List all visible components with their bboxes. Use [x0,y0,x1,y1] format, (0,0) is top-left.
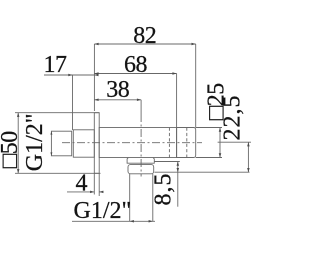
svg-text:38: 38 [106,77,130,103]
flange plate [94,113,99,174]
dim 82 left extension [93,44,95,111]
dim 4 right extension [98,173,100,196]
arrow dim82 right [192,43,196,46]
svg-text:17: 17 [44,52,68,78]
centerline extension right (22,5 top extension) [218,141,251,143]
arrow dim38 left [94,99,98,102]
arrow sq50 bottom [17,169,20,173]
dim 68 line [94,73,176,75]
dim 22,5 bottom extension [154,171,249,173]
body end cap [177,128,196,158]
hidden line inside body left [168,128,170,158]
nipple neck [73,130,94,157]
svg-text:4: 4 [76,171,88,197]
dim 82 line [94,43,195,45]
horizontal centerline [62,142,202,144]
arrow G1/2 bottom right [149,220,153,223]
arrow dim22,5 top [247,142,250,146]
arrow dim4 right [99,191,103,194]
dim sq25 top extension [196,127,222,129]
dim sq50 top extension / flange top [15,112,99,114]
dim 4 left extension [93,173,95,194]
dim sq25 bottom extension [196,157,222,159]
svg-text:8,5: 8,5 [150,173,176,206]
arrow G1/2 bottom left [130,220,134,223]
dim sq25 line [219,128,221,158]
dim 17 left extension [72,75,74,130]
svg-text:82: 82 [133,23,156,49]
dim 8,5 top extension [154,161,179,163]
svg-text:22,5: 22,5 [220,95,246,141]
dim 38 right extension [140,100,142,114]
dim 22,5 line [247,142,249,172]
dim sq50 line [17,113,19,174]
dim 82 right extension [195,44,197,128]
svg-text:68: 68 [124,52,148,78]
outlet vertical centerline [140,114,142,177]
dim 38 line [94,99,141,101]
dim 8,5 line [177,162,179,207]
arrow sq25 top [219,128,222,132]
arrow dim82 left [94,43,98,46]
arrow dim68 right [172,72,176,75]
arrow dim68 left [94,72,98,75]
arrow dim17 left [68,74,72,77]
dim 4 line right part [99,191,103,193]
hidden line inside body right [186,128,188,158]
body tube [99,128,176,158]
arrow dim17 right [94,74,98,77]
svg-text:G1/2": G1/2" [22,113,48,171]
arrow dim8,5 bottom [177,168,180,172]
arrow dim22,5 bottom [247,168,250,172]
svg-text:G1/2": G1/2" [74,198,132,224]
arrow dim38 right [137,99,141,102]
arrow dim4 left [90,191,94,194]
G1/2 bottom leader line [72,220,155,222]
outlet collar ring 2 [128,165,154,174]
arrow thread tip bottom [50,152,52,155]
arrow sq25 bottom [219,153,222,157]
dim 4 line left part [67,191,94,193]
arrow dim8,5 top [177,162,180,166]
dim 17 line [44,74,96,76]
dim 68 right extension [176,74,178,158]
arrow thread tip top [50,131,52,134]
outlet collar ring 1 [127,158,154,164]
svg-text:□50: □50 [0,131,23,168]
arrow sq50 top [17,113,20,117]
nipple thread G1/2 [51,131,71,156]
outlet tube [130,174,153,222]
dim sq50 bottom extension / flange bottom [15,172,101,174]
